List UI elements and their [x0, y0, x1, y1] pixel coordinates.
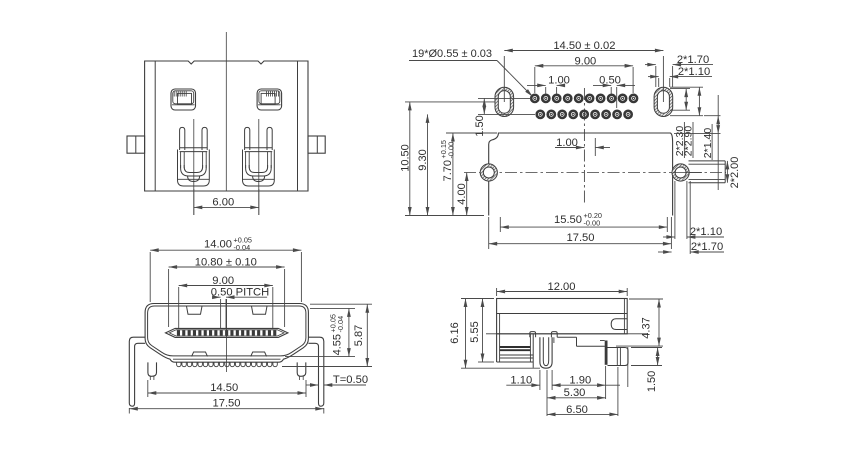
dimension 9.00 front	[178, 287, 180, 328]
svg-text:2*1.70: 2*1.70	[691, 241, 723, 253]
bottom dimple left	[192, 352, 208, 356]
right solder arm	[308, 337, 323, 406]
dimension 12.00	[496, 288, 498, 296]
right spring contact	[242, 119, 274, 215]
right pin	[608, 348, 629, 366]
dimension 15.50 +0.20/-0.00	[499, 217, 501, 232]
svg-text:-0.04: -0.04	[336, 316, 345, 333]
svg-text:9.00: 9.00	[575, 55, 597, 67]
dimension 6.16	[461, 298, 494, 300]
dimension 2*2.90	[670, 86, 703, 88]
top dimple right	[252, 306, 268, 314]
lower-left round hole	[480, 164, 497, 181]
svg-text:1.50: 1.50	[646, 371, 658, 392]
dimension 1.00 top	[545, 87, 547, 94]
side view body	[497, 299, 628, 334]
svg-text:6.16: 6.16	[449, 322, 461, 343]
lower-right round hole	[672, 164, 689, 181]
svg-text:2*1.10: 2*1.10	[690, 226, 722, 238]
svg-text:5.87: 5.87	[353, 325, 365, 346]
svg-text:T=0.50: T=0.50	[333, 374, 368, 386]
front view shell inner	[148, 306, 306, 356]
dimension 14.00 +0.05/-0.04	[149, 252, 151, 302]
smt pads dark band	[500, 346, 531, 348]
svg-text:-0.04: -0.04	[234, 243, 251, 252]
svg-text:2*2.00: 2*2.00	[729, 157, 741, 189]
right edge notch	[611, 319, 627, 330]
bracket bolts	[530, 332, 536, 338]
tongue outline	[166, 328, 288, 337]
dimension 10.50	[405, 101, 495, 103]
dimension 0.50 PITCH	[220, 299, 222, 328]
right mounting tab	[308, 136, 325, 153]
dimension 9.30	[427, 114, 429, 215]
top view inner side walls	[154, 61, 156, 191]
svg-text:5.55: 5.55	[469, 321, 481, 342]
dimension 9.00 top	[534, 67, 536, 93]
side view left column	[496, 334, 498, 362]
side view long bottom line	[486, 333, 648, 335]
svg-text:4.00: 4.00	[456, 183, 468, 204]
svg-text:17.50: 17.50	[567, 232, 595, 244]
bottom dimple right	[251, 352, 267, 356]
dimension 4.00	[466, 173, 468, 216]
left foot	[148, 362, 157, 376]
top dimple left	[187, 306, 203, 314]
front view bottom hem	[173, 358, 281, 360]
dimension 1.50 rows	[478, 97, 531, 99]
dark tab	[605, 341, 608, 365]
bottom contact scallops	[177, 362, 278, 366]
dimension 1.50 side	[631, 347, 662, 349]
left solder arm	[129, 337, 145, 406]
top view outline	[145, 61, 308, 191]
tongue contacts	[177, 330, 276, 336]
dimension 5.30	[546, 370, 548, 416]
dimension 2*1.70 lower	[689, 181, 691, 254]
dimension 6.50	[617, 367, 619, 416]
svg-text:10.50: 10.50	[400, 144, 412, 172]
dimension 0.50 top	[610, 87, 612, 94]
svg-text:14.00: 14.00	[204, 239, 232, 251]
svg-text:14.50 ± 0.02: 14.50 ± 0.02	[553, 40, 615, 52]
right latch feature	[257, 89, 282, 110]
dimension 1.90 side	[605, 366, 607, 399]
dimension T=0.50	[306, 384, 319, 386]
dimension 5.87	[310, 303, 372, 305]
left slotted hole	[495, 87, 514, 116]
pin holes row 2 (9 x 0.55)	[537, 111, 632, 118]
svg-text:15.50: 15.50	[554, 214, 582, 226]
svg-text:-0.00: -0.00	[584, 219, 601, 228]
dimension 14.50 front	[147, 380, 149, 397]
svg-text:0.50 PITCH: 0.50 PITCH	[211, 287, 269, 299]
right foot	[297, 362, 306, 376]
right pad tab	[689, 160, 726, 162]
left spring contact	[178, 119, 210, 215]
svg-text:9.00: 9.00	[212, 275, 234, 287]
svg-text:1.00: 1.00	[548, 74, 570, 86]
dimension 2*1.10 lower	[674, 181, 676, 239]
footprint vertical center line	[583, 88, 585, 204]
footprint body outline	[489, 133, 673, 216]
dimension 1.00 center	[594, 138, 596, 156]
dimension 4.37	[629, 298, 663, 300]
dimension 2*2.30	[670, 88, 690, 90]
pin holes row 1 (10 x 0.55)	[531, 95, 637, 102]
svg-text:17.50: 17.50	[213, 397, 241, 409]
dimension 2*1.40	[674, 133, 721, 135]
dimension 10.80 +-0.10	[168, 269, 170, 327]
svg-text:6.50: 6.50	[566, 404, 588, 416]
top view center line	[225, 32, 227, 191]
svg-text:12.00: 12.00	[548, 281, 576, 293]
svg-text:1.00: 1.00	[556, 137, 578, 149]
svg-text:19*Ø0.55 ± 0.03: 19*Ø0.55 ± 0.03	[412, 48, 492, 60]
svg-text:4.55: 4.55	[332, 334, 344, 355]
dimension 17.50 front	[128, 408, 130, 414]
left mounting tab	[127, 136, 145, 153]
step to right	[557, 336, 576, 338]
front view shell outer	[145, 304, 308, 363]
svg-text:10.80 ± 0.10: 10.80 ± 0.10	[195, 256, 257, 268]
svg-text:9.30: 9.30	[417, 149, 429, 170]
svg-text:1.90: 1.90	[569, 374, 591, 386]
dimension 7.70 +0.15/-0.00	[446, 132, 497, 134]
right slotted hole	[654, 87, 673, 116]
footprint horizontal center line	[464, 172, 726, 174]
svg-text:4.37: 4.37	[641, 317, 653, 338]
dimension 4.55 +0.05/-0.04	[310, 307, 355, 309]
svg-text:1.10: 1.10	[510, 375, 532, 387]
dimension 2*1.70 top right	[655, 66, 657, 87]
dimension 5.55	[478, 361, 494, 363]
svg-text:-0.00: -0.00	[447, 142, 456, 159]
svg-text:2*1.10: 2*1.10	[678, 66, 710, 78]
extension line right of pin	[627, 347, 629, 387]
dimension 1.10 side	[539, 370, 541, 390]
dimension 17.50 footprint	[488, 217, 490, 249]
svg-text:0.50: 0.50	[599, 74, 621, 86]
bracket foot	[540, 337, 552, 368]
svg-text:5.30: 5.30	[564, 387, 586, 399]
svg-text:1.50: 1.50	[474, 115, 486, 136]
svg-text:14.50: 14.50	[210, 382, 238, 394]
svg-text:7.70: 7.70	[442, 160, 454, 181]
dimension 6.00	[193, 189, 195, 215]
front view center line	[226, 299, 228, 372]
left latch feature	[171, 89, 196, 110]
dimension 2*2.00	[726, 161, 728, 183]
svg-text:2*1.70: 2*1.70	[677, 54, 709, 66]
dimension 2*1.10 top right	[658, 78, 660, 87]
svg-text:6.00: 6.00	[212, 197, 234, 209]
dimension 14.50 +-0.02	[503, 56, 505, 102]
